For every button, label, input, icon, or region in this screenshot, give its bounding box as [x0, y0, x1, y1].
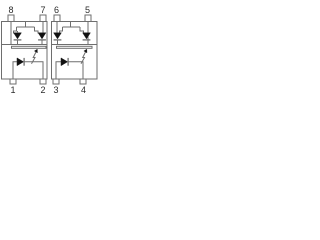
svg-text:1: 1 — [10, 85, 15, 95]
channel 2 box — [52, 22, 98, 80]
LED2 body — [61, 58, 68, 66]
wire D6 to bar — [57, 40, 59, 45]
diode D7 cathode bar — [38, 39, 46, 41]
pin 3 terminal — [53, 79, 59, 84]
LED1 cathode wire — [24, 62, 43, 79]
diode D8 body — [14, 33, 22, 39]
svg-text:7: 7 — [40, 5, 45, 15]
control-circuit U2 — [57, 46, 93, 48]
wire gate ladder Q6 — [60, 22, 84, 34]
pin 2 terminal — [40, 79, 46, 84]
wire pin8 drain — [10, 22, 12, 45]
control-circuit U1 — [12, 46, 47, 48]
svg-text:2: 2 — [40, 85, 45, 95]
LED1 anode wire — [13, 62, 17, 79]
svg-text:5: 5 — [85, 5, 90, 15]
diode D8 anode stub — [17, 31, 19, 33]
node source-bar ch1 — [2, 44, 48, 46]
pin 1 terminal — [10, 79, 16, 84]
diode D5 cathode bar — [83, 39, 91, 41]
svg-text:3: 3 — [53, 85, 58, 95]
optical arrowhead ch1 — [34, 49, 37, 53]
LED2 cathode wire — [68, 62, 83, 79]
wire pin5 drain — [87, 22, 89, 45]
node source-bar ch2 — [52, 44, 98, 46]
wire D8 to bar — [17, 40, 19, 45]
diode D6 cathode bar — [54, 39, 62, 41]
pin 5 terminal — [85, 15, 91, 22]
pin 7 terminal — [40, 15, 46, 22]
wire pin7 drain — [42, 22, 44, 34]
wire pin6 drain — [56, 22, 58, 34]
svg-text:6: 6 — [54, 5, 59, 15]
LED1 body — [17, 58, 24, 66]
pin 6 terminal — [54, 15, 60, 22]
diode D7 body — [38, 33, 46, 39]
optical arrowhead ch2 — [84, 49, 87, 53]
optical arrow ch2 — [81, 52, 86, 64]
svg-text:4: 4 — [81, 85, 86, 95]
LED2 anode wire — [56, 62, 61, 79]
diode D8 cathode bar — [14, 39, 22, 41]
optical arrow ch1 — [32, 52, 37, 64]
pin 4 terminal — [80, 79, 86, 84]
svg-text:8: 8 — [8, 5, 13, 15]
diode D5 body — [83, 33, 91, 39]
wire D7 to bar — [41, 40, 43, 45]
LED1 cathode bar — [23, 58, 25, 66]
LED2 cathode bar — [67, 58, 69, 66]
wire gate ladder Q8 — [14, 22, 39, 34]
pin 8 terminal — [8, 15, 14, 22]
channel 1 box — [2, 22, 48, 80]
diode D6 body — [54, 33, 62, 39]
